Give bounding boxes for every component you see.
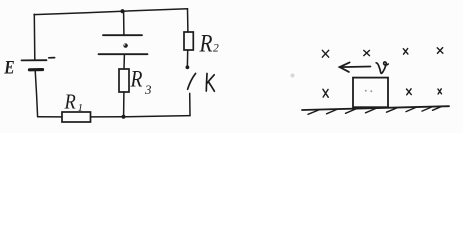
svg-text:1: 1 xyxy=(78,102,84,114)
wire bottom middle xyxy=(91,116,124,118)
svg-text:2: 2 xyxy=(213,43,219,55)
switch K contact dot xyxy=(186,65,190,69)
wire right vertical lower xyxy=(189,93,191,115)
svg-text:3: 3 xyxy=(144,82,152,97)
label v xyxy=(376,62,388,73)
svg-text:R: R xyxy=(130,66,143,92)
wire top horizontal xyxy=(34,9,188,15)
magnetic field x marks row 2 xyxy=(323,89,442,98)
magnetic field x marks row 1 xyxy=(322,48,443,58)
switch K blade xyxy=(188,73,196,89)
ground line xyxy=(302,106,449,110)
wire left vertical lower xyxy=(35,70,37,116)
wire right vertical upper xyxy=(187,9,189,32)
label K xyxy=(206,74,214,92)
velocity arrow v xyxy=(340,62,371,72)
wire R2 bottom stub xyxy=(186,50,188,66)
node top junction xyxy=(120,9,124,13)
charged ball xyxy=(123,43,127,47)
capacitor bottom plate xyxy=(99,53,148,55)
block xyxy=(353,78,388,108)
battery E xyxy=(22,58,55,70)
node bottom junction xyxy=(122,115,126,119)
wire left vertical upper xyxy=(33,14,36,59)
wire capacitor top stub xyxy=(123,12,125,35)
svg-text:R: R xyxy=(199,30,213,58)
wire bottom left xyxy=(38,116,62,118)
ground hatching xyxy=(308,107,441,115)
resistor R3 xyxy=(119,69,129,92)
faint smudge left of figure xyxy=(291,74,295,78)
capacitor top plate xyxy=(103,34,142,36)
resistor R1 xyxy=(62,112,91,122)
svg-text:E: E xyxy=(3,57,14,78)
wire R3 bottom stub xyxy=(123,92,125,117)
wire bottom right xyxy=(124,116,191,117)
dots inside block xyxy=(365,90,373,93)
resistor R2 xyxy=(184,32,193,50)
wire capacitor bottom stub xyxy=(123,55,125,70)
svg-text:R: R xyxy=(64,90,76,113)
